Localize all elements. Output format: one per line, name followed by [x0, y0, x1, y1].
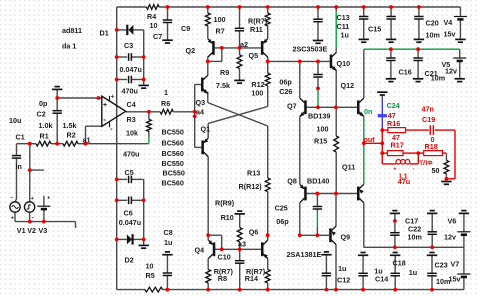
- svg-text:+: +: [47, 195, 50, 201]
- svg-text:47u: 47u: [398, 177, 410, 186]
- svg-text:Q6: Q6: [249, 227, 259, 236]
- svg-text:BC550: BC550: [162, 159, 184, 168]
- svg-text:Q1: Q1: [201, 125, 211, 134]
- svg-text:10: 10: [146, 262, 154, 271]
- svg-text:100: 100: [214, 15, 226, 24]
- svg-text:+: +: [11, 216, 14, 222]
- svg-text:10m: 10m: [408, 232, 422, 241]
- svg-text:V3: V3: [39, 226, 48, 235]
- svg-text:a2: a2: [240, 40, 248, 49]
- svg-text:1u: 1u: [338, 264, 346, 273]
- svg-text:BD140: BD140: [307, 177, 329, 186]
- svg-text:470u: 470u: [122, 87, 138, 96]
- svg-text:a4: a4: [196, 108, 204, 117]
- svg-text:10m: 10m: [431, 73, 445, 82]
- svg-text:1u: 1u: [164, 238, 172, 247]
- svg-text:V6: V6: [448, 217, 457, 226]
- svg-text:-: -: [32, 215, 34, 221]
- svg-text:2SA1381E: 2SA1381E: [287, 250, 322, 259]
- svg-text:Q2: Q2: [186, 46, 196, 55]
- svg-text:V1: V1: [17, 226, 26, 235]
- svg-text:10m: 10m: [426, 31, 440, 40]
- svg-text:0.047u: 0.047u: [119, 218, 141, 227]
- svg-text:R6: R6: [161, 99, 170, 108]
- svg-text:BC550: BC550: [162, 128, 184, 137]
- svg-text:V2: V2: [27, 226, 36, 235]
- svg-text:C18: C18: [393, 259, 406, 268]
- svg-text:R8: R8: [218, 274, 227, 283]
- svg-text:Q10: Q10: [337, 59, 351, 68]
- svg-text:R(R9): R(R9): [215, 198, 235, 207]
- svg-text:+: +: [111, 95, 115, 101]
- svg-text:Q3: Q3: [196, 98, 206, 107]
- svg-text:D1: D1: [100, 29, 109, 38]
- svg-text:12v: 12v: [444, 232, 456, 241]
- svg-text:ТЛФ: ТЛФ: [419, 160, 433, 167]
- svg-text:C26: C26: [279, 87, 292, 96]
- svg-text:C3: C3: [124, 41, 133, 50]
- svg-text:R9: R9: [220, 68, 229, 77]
- svg-text:C20: C20: [426, 19, 439, 28]
- svg-text:Q7: Q7: [287, 102, 297, 111]
- svg-text:Q11: Q11: [342, 163, 355, 172]
- svg-text:R(R12): R(R12): [239, 182, 263, 191]
- svg-text:06p: 06p: [276, 217, 289, 226]
- svg-text:1u: 1u: [341, 31, 349, 40]
- svg-text:C19: C19: [422, 115, 435, 124]
- svg-text:C6: C6: [124, 209, 133, 218]
- svg-text:BD139: BD139: [308, 112, 330, 121]
- svg-text:C4: C4: [127, 100, 136, 109]
- svg-text:Q8: Q8: [287, 176, 297, 185]
- svg-text:C10: C10: [218, 253, 231, 262]
- svg-text:47n: 47n: [422, 105, 434, 114]
- svg-text:C2: C2: [37, 110, 46, 119]
- svg-text:R3: R3: [127, 115, 136, 124]
- svg-text:BC560: BC560: [162, 139, 184, 148]
- svg-text:C15: C15: [368, 25, 381, 34]
- svg-text:Q4: Q4: [195, 245, 205, 254]
- svg-text:+: +: [393, 166, 396, 172]
- svg-text:10u: 10u: [9, 116, 21, 125]
- svg-text:1.0k: 1.0k: [39, 121, 53, 130]
- svg-text:R4: R4: [147, 12, 156, 21]
- svg-text:D2: D2: [125, 255, 134, 264]
- svg-text:0n: 0n: [364, 107, 372, 116]
- svg-text:1.5k: 1.5k: [63, 121, 77, 130]
- svg-text:V4: V4: [444, 18, 453, 27]
- svg-text:7.5k: 7.5k: [216, 81, 230, 90]
- svg-text:R7: R7: [216, 27, 225, 36]
- svg-text:C23: C23: [435, 261, 448, 270]
- svg-text:R10: R10: [221, 213, 234, 222]
- svg-text:C16: C16: [399, 68, 412, 77]
- svg-text:10: 10: [150, 21, 158, 30]
- svg-text:C14: C14: [375, 275, 388, 284]
- svg-text:a3: a3: [238, 240, 246, 249]
- svg-text:0p: 0p: [39, 99, 48, 108]
- svg-text:100: 100: [317, 125, 329, 134]
- svg-text:+: +: [103, 102, 107, 109]
- svg-text:da 1: da 1: [62, 42, 76, 51]
- svg-text:15v: 15v: [449, 275, 461, 284]
- svg-text:06p: 06p: [279, 77, 292, 86]
- svg-text:R1: R1: [40, 132, 49, 141]
- svg-text:C12: C12: [337, 276, 350, 285]
- svg-text:R15: R15: [314, 137, 327, 146]
- svg-text:C24: C24: [387, 101, 400, 110]
- svg-text:R11: R11: [250, 25, 263, 34]
- svg-text:C1: C1: [16, 133, 25, 142]
- svg-text:C25: C25: [275, 203, 288, 212]
- svg-text:-: -: [413, 166, 415, 172]
- svg-text:out: out: [364, 135, 376, 144]
- svg-text:12v: 12v: [445, 67, 457, 76]
- svg-text:50: 50: [432, 166, 440, 175]
- svg-text:V7: V7: [451, 260, 460, 269]
- svg-text:R5: R5: [146, 271, 155, 280]
- svg-text:-: -: [103, 115, 106, 124]
- svg-text:-: -: [11, 195, 13, 201]
- svg-text:Q5: Q5: [249, 51, 259, 60]
- svg-text:2SC3503E: 2SC3503E: [293, 45, 328, 54]
- svg-text:100: 100: [251, 88, 263, 97]
- svg-text:R16: R16: [387, 119, 400, 128]
- svg-text:1: 1: [164, 88, 168, 97]
- svg-text:15v: 15v: [444, 30, 456, 39]
- svg-text:10k: 10k: [126, 129, 138, 138]
- svg-text:BC550: BC550: [163, 169, 185, 178]
- svg-text:In: In: [16, 162, 22, 171]
- svg-text:C7: C7: [153, 32, 162, 41]
- svg-text:R14: R14: [245, 274, 258, 283]
- svg-text:BC560: BC560: [162, 149, 184, 158]
- svg-text:C13: C13: [337, 13, 350, 22]
- svg-text:R13: R13: [247, 169, 260, 178]
- svg-text:a1: a1: [83, 136, 91, 145]
- svg-text:R17: R17: [391, 141, 404, 150]
- svg-text:Q12: Q12: [341, 81, 355, 90]
- svg-text:R18: R18: [425, 142, 438, 151]
- svg-text:0.047u: 0.047u: [120, 65, 142, 74]
- svg-text:C9: C9: [181, 24, 190, 33]
- svg-text:1u: 1u: [409, 268, 417, 277]
- svg-text:BC560: BC560: [162, 179, 184, 188]
- svg-text:C5: C5: [125, 168, 134, 177]
- svg-text:ad811: ad811: [62, 26, 82, 35]
- svg-text:+: +: [31, 196, 34, 202]
- svg-text:R2: R2: [67, 131, 76, 140]
- svg-text:Q9: Q9: [341, 233, 351, 242]
- svg-text:C8: C8: [164, 228, 173, 237]
- svg-text:470u: 470u: [123, 150, 139, 159]
